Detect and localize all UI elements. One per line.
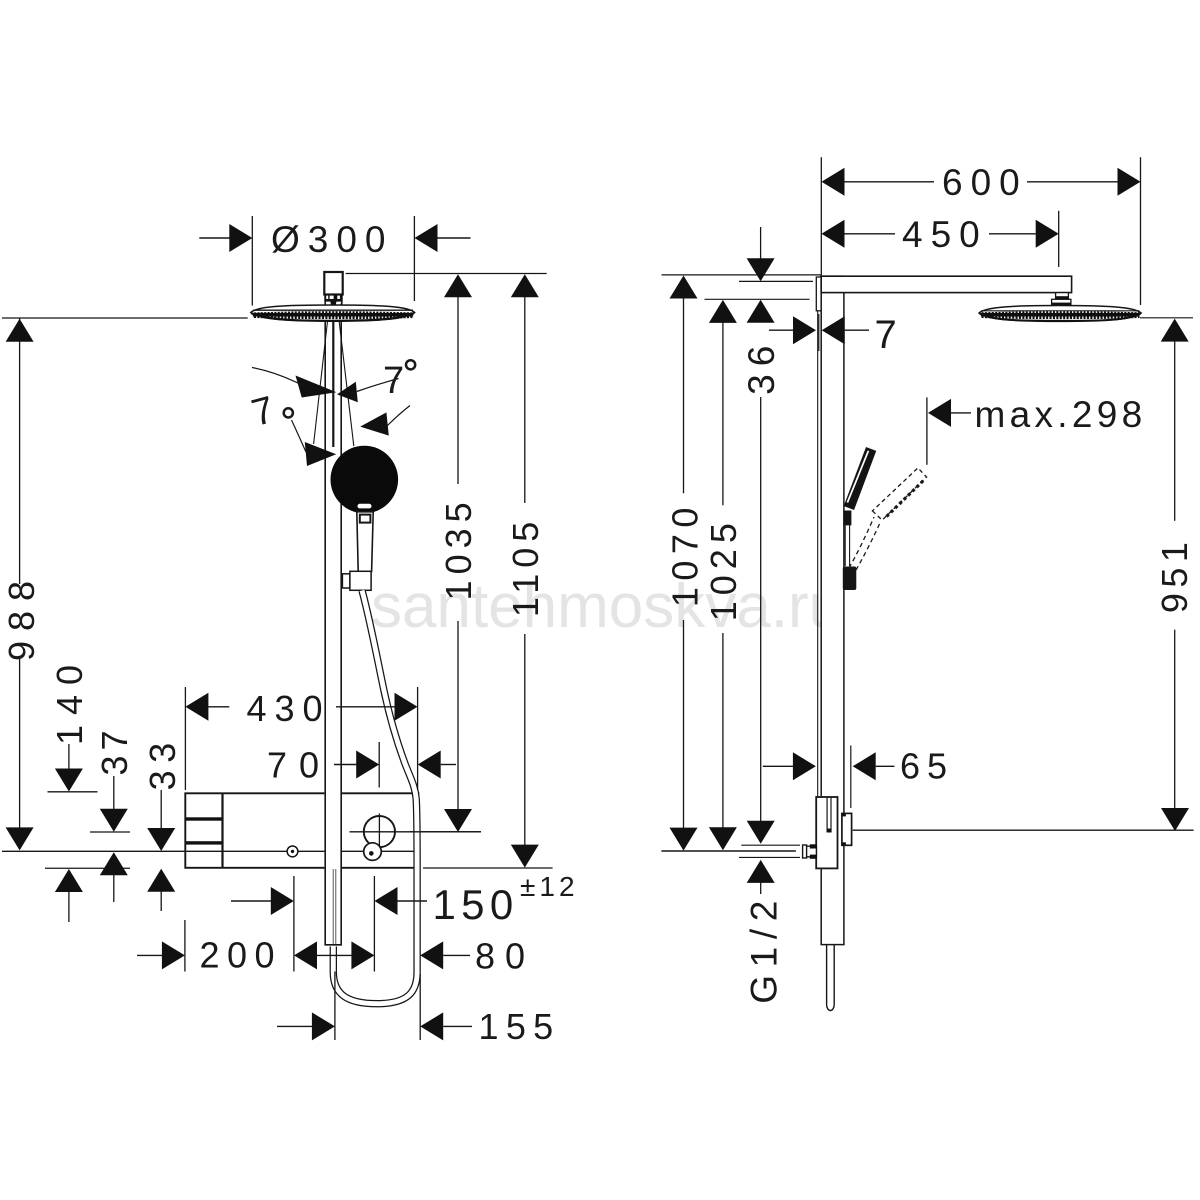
datum line upper-left (head level) [2, 317, 248, 319]
dim 140 [68, 744, 70, 770]
hand shower hose (front) [333, 591, 417, 1004]
thermostat trim box (front) [185, 793, 418, 868]
arm top datum line [662, 274, 822, 276]
stem legs [324, 301, 326, 305]
dim 150 ext right [373, 876, 375, 972]
dim 155 ext right [419, 974, 421, 1040]
svg-text:200: 200 [200, 935, 283, 976]
hand shower (side, swung out, dashed) [872, 468, 926, 520]
crosshair horizontal / 1035 datum [350, 831, 482, 833]
svg-text:80: 80 [475, 936, 535, 977]
pipe bottom cap [324, 944, 342, 946]
svg-text:988: 988 [1, 571, 42, 661]
svg-text:7: 7 [247, 388, 283, 435]
crosshair datum overdraw [410, 831, 481, 833]
right outlet datum line [661, 850, 796, 852]
wall plate [816, 277, 821, 311]
svg-text:951: 951 [1154, 537, 1195, 614]
overhead shower disc (front) [251, 305, 415, 321]
svg-text:33: 33 [142, 735, 183, 790]
svg-text:1105: 1105 [505, 516, 546, 617]
hand shower handle [357, 512, 373, 572]
svg-text:7: 7 [875, 313, 902, 357]
dim O300 ext line right [413, 216, 415, 301]
arm ball neck [1056, 293, 1069, 300]
dim 600 ext left [820, 157, 822, 276]
svg-text:430: 430 [247, 688, 331, 729]
svg-text:70: 70 [267, 745, 331, 786]
swing arc lower-right [388, 406, 411, 426]
crosshair vertical [378, 814, 380, 850]
head top datum line [346, 273, 547, 275]
ceiling connector stem [324, 272, 342, 295]
svg-text:36: 36 [741, 338, 782, 395]
hand shower (side, in holder) [844, 448, 875, 510]
dim max298 [928, 399, 951, 427]
dim 450 [822, 220, 845, 248]
svg-text:37: 37 [94, 725, 135, 775]
svg-text:1035: 1035 [438, 496, 479, 600]
dim O300 [199, 237, 229, 239]
dim 1025 line [709, 300, 737, 323]
svg-text:±12: ±12 [520, 871, 579, 902]
dim G12 [747, 821, 775, 844]
dim 1035 line [444, 274, 472, 297]
hose outlet symbol [364, 843, 382, 861]
svg-text:1025: 1025 [703, 517, 744, 621]
swing arc lower-left [292, 420, 307, 452]
datum 37 top [90, 831, 130, 833]
wall bar (side) [821, 276, 844, 944]
dim 37 [113, 776, 115, 810]
svg-text:max.298: max.298 [975, 394, 1147, 435]
dim 33 [160, 790, 162, 829]
svg-text:450: 450 [902, 214, 988, 255]
dim 200 ext left [184, 920, 186, 972]
valve body (side) [816, 797, 837, 868]
dim 70 ext [378, 742, 380, 788]
dim 430 ext right [417, 687, 419, 790]
dim 430 ext left [184, 687, 186, 790]
svg-text:600: 600 [942, 162, 1028, 203]
dim 200-80 [137, 954, 162, 956]
shower arm (side) [821, 276, 1071, 292]
dim 155 [277, 1025, 312, 1027]
datum 36 bottom [705, 298, 810, 300]
hand shower head (front) [331, 446, 399, 514]
arm ball flange [1052, 299, 1071, 304]
tilt line left 7deg [314, 308, 329, 444]
overhead shower disc (side) [979, 306, 1141, 322]
svg-text:65: 65 [900, 746, 954, 787]
dim 150 ext left [293, 876, 295, 972]
dim 65 ext [850, 746, 852, 809]
valve slot [826, 798, 828, 833]
shower pipe (front) [324, 303, 342, 945]
handle ridge 2 [186, 841, 223, 844]
holder bracket (side) [843, 567, 857, 591]
svg-text:140: 140 [49, 655, 90, 745]
wall outlet symbol [287, 846, 298, 857]
dim 70 [334, 764, 356, 766]
dim 1070 line [670, 276, 698, 299]
swing arc upper-left [252, 368, 306, 388]
datum 140 top [48, 791, 98, 793]
dim 36 [760, 227, 762, 259]
swing arrow lower-left [305, 442, 336, 466]
select control circle [364, 816, 395, 847]
datum 36 top [739, 280, 813, 282]
dim 7 ext [818, 314, 820, 351]
svg-text:155: 155 [479, 1006, 561, 1047]
dim 1105 line [511, 274, 539, 297]
disc bottom datum [1140, 317, 1193, 319]
swing arrow upper-left [296, 376, 337, 398]
annotation line 36-G12 [760, 397, 762, 821]
dim 150 [231, 900, 271, 902]
dim 988 vertical line [19, 318, 21, 584]
valve knob (side) [842, 813, 852, 845]
handle divider line [221, 793, 223, 868]
dim 430 [185, 693, 208, 721]
knob datum line [853, 829, 1194, 831]
hose (side) [827, 945, 835, 1011]
dim 450 ext right [1058, 211, 1060, 267]
dim 600 [822, 168, 845, 196]
hose inside pipe [332, 869, 334, 944]
swing arrow lower-right [360, 412, 389, 435]
tilt line right 7deg [338, 308, 354, 446]
swing arrow upper-right [337, 382, 358, 403]
G12 nipple [741, 844, 800, 846]
pivot center tube [332, 311, 334, 447]
svg-text:Ø300: Ø300 [271, 219, 394, 260]
hand shower holder [342, 574, 350, 588]
wall rail line [817, 311, 819, 797]
dim O300 ext line left [251, 216, 253, 306]
svg-text:1070: 1070 [665, 501, 706, 607]
svg-text:G1/2: G1/2 [744, 893, 785, 1004]
dim 7 [769, 329, 793, 331]
svg-text:150: 150 [433, 881, 519, 928]
dim 155 ext left [334, 972, 336, 1041]
dim max298 ext [926, 397, 928, 464]
dim 65 [763, 765, 793, 767]
swing arc upper-right [357, 379, 399, 392]
swing arc (dashed) [849, 517, 874, 568]
outlet datum line [2, 850, 418, 852]
1105 lower datum line [423, 867, 553, 869]
ball joint cone [330, 301, 336, 311]
dim 951 line [1161, 319, 1189, 342]
handle ridge 1 [186, 817, 223, 820]
datum 140 bottom [45, 867, 130, 869]
dim 600 ext right [1140, 157, 1142, 305]
